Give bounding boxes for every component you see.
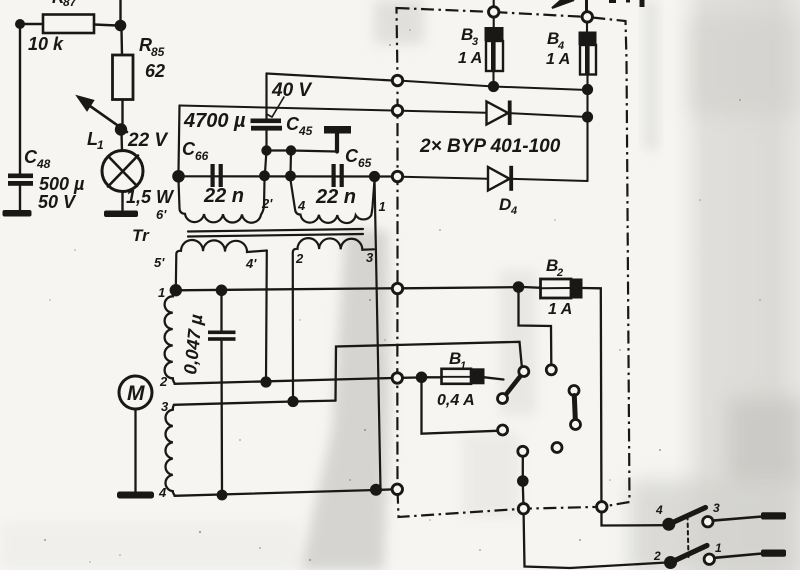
capacitor C65 22n bbox=[332, 164, 336, 187]
wire: terminal to B2 bbox=[402, 287, 515, 288]
svg-text:22 n: 22 n bbox=[203, 185, 244, 207]
winding 1-2 (left vertical) bbox=[165, 290, 176, 383]
terminal primary line bbox=[392, 171, 402, 181]
40V callout arrow bbox=[267, 97, 285, 117]
svg-text:3: 3 bbox=[472, 36, 478, 48]
svg-text:M: M bbox=[127, 382, 145, 405]
wire: 4' down to pin2 line bbox=[265, 251, 268, 382]
wire: pin 4 line bbox=[175, 489, 393, 495]
capacitor C45 4700u bbox=[251, 119, 282, 124]
svg-text:4: 4 bbox=[510, 205, 517, 217]
wire: stub dot to winding line bbox=[265, 153, 266, 173]
terminals (open circles) on boundary bbox=[392, 7, 607, 514]
switch 4-3 (bottom right) bbox=[662, 518, 675, 531]
svg-text:4': 4' bbox=[245, 256, 257, 271]
svg-text:1: 1 bbox=[460, 360, 466, 372]
svg-text:45: 45 bbox=[298, 124, 313, 138]
svg-text:4: 4 bbox=[297, 198, 306, 213]
wire: C45 top line to boundary terminal bbox=[267, 74, 393, 81]
wire: junction up to edge bbox=[119, 0, 121, 21]
svg-text:4: 4 bbox=[158, 485, 167, 500]
winding 6'-2' (primary left) bbox=[179, 180, 265, 223]
wire: pin 2 line bbox=[175, 378, 393, 384]
svg-text:22 n: 22 n bbox=[315, 186, 356, 208]
svg-text:10 k: 10 k bbox=[28, 34, 64, 54]
terminal 40V line bbox=[392, 75, 402, 85]
wire: terminal to B1 bbox=[402, 376, 418, 379]
svg-text:3: 3 bbox=[161, 399, 169, 414]
svg-text:C: C bbox=[345, 146, 359, 166]
switch contact (pole) bbox=[498, 394, 508, 404]
fuse B3 1A bbox=[493, 17, 495, 28]
svg-text:1: 1 bbox=[379, 199, 386, 214]
terminal pin1 line bbox=[392, 283, 402, 293]
ground (C48) bbox=[3, 210, 32, 217]
svg-text:65: 65 bbox=[358, 156, 372, 170]
wire: diode 1 line bbox=[402, 111, 486, 113]
resistor R85 62 bbox=[113, 55, 134, 100]
svg-text:2: 2 bbox=[159, 374, 168, 389]
junction dot 1 top bbox=[369, 171, 380, 182]
svg-text:40 V: 40 V bbox=[271, 80, 312, 101]
diode D4 (lower BYP 401-100) bbox=[488, 167, 510, 191]
arrow pointer at lamp bbox=[90, 106, 127, 132]
terminal pin4 line bbox=[392, 484, 402, 494]
svg-text:1,5 W: 1,5 W bbox=[126, 187, 175, 207]
wire: C45 top vertical bbox=[265, 74, 267, 120]
svg-text:C: C bbox=[182, 139, 196, 159]
junction dot bbox=[286, 145, 296, 155]
wire: diode D4 line bbox=[402, 177, 488, 179]
junction dot B2 left bbox=[513, 281, 525, 293]
wire: lamp bottom to ground bbox=[121, 192, 123, 213]
svg-text:48: 48 bbox=[36, 157, 51, 171]
svg-text:1 A: 1 A bbox=[546, 51, 570, 68]
junction dot C45 bottom bbox=[261, 145, 271, 155]
wire: top-left node to R87 bbox=[20, 23, 43, 25]
svg-text:1: 1 bbox=[715, 541, 722, 555]
text fragments cut at top edge bbox=[609, 0, 616, 3]
fuse B1 0.4A bbox=[426, 376, 442, 378]
wire: long vertical pin1-top to pin4 line bbox=[375, 177, 381, 489]
wire: contact down to pin4 node bbox=[522, 456, 524, 477]
winding 4-1 (primary right) bbox=[291, 180, 375, 223]
terminal pin2 line bbox=[392, 373, 402, 383]
wire: node down to boundary terminal bbox=[522, 484, 525, 504]
wire: B1 right to switch bbox=[485, 377, 504, 379]
wire: 40V node line from C66 box corner to boundary terminal bbox=[180, 106, 393, 111]
wire: pin3 route up and right to switch bbox=[336, 342, 522, 401]
junction dot B4 bottom bbox=[582, 84, 593, 95]
wire: C45 bottom to node bbox=[265, 131, 267, 150]
diode D3 (upper BYP 401-100) bbox=[487, 102, 509, 125]
terminal B4 top bbox=[582, 12, 592, 22]
junction dot 2' top bbox=[259, 170, 270, 181]
junction dot pin4/long vertical bbox=[370, 484, 382, 496]
svg-text:66: 66 bbox=[195, 149, 209, 163]
switch arm B1 bbox=[506, 375, 522, 395]
wire: B4 terminal stub bbox=[585, 0, 588, 12]
transformer core bbox=[188, 229, 363, 232]
wire: B2 left branch down to contact bbox=[519, 290, 552, 364]
winding 2-3 (secondary right) wire down from 4' handled separately bbox=[293, 238, 374, 287]
junction dot diode line bbox=[582, 111, 593, 122]
fuse B2 1A bbox=[523, 286, 541, 289]
switch contact (throw, to pin3 route) bbox=[519, 367, 529, 377]
wire: pin 3 line bbox=[174, 401, 336, 405]
arrow at top bbox=[552, 0, 574, 8]
switch contact isolated bbox=[552, 443, 562, 453]
svg-text:2: 2 bbox=[653, 549, 661, 563]
wire: junction to lamp top bbox=[120, 133, 123, 151]
wire: corner down to C66 top-left dot bbox=[179, 106, 180, 172]
junction dot above lamp L1 bbox=[115, 123, 127, 135]
wire: B4 vertical to D4 corner bbox=[586, 92, 588, 181]
fuse B4 1A bbox=[586, 22, 588, 32]
wire: node to second dot bbox=[267, 149, 292, 151]
wire: node to shield stem bbox=[291, 151, 337, 152]
svg-text:C: C bbox=[24, 147, 38, 167]
svg-text:6': 6' bbox=[156, 207, 167, 222]
switch contact upper of column bbox=[518, 446, 528, 456]
winding 3-4 (left vertical lower) bbox=[166, 405, 175, 496]
svg-text:4: 4 bbox=[655, 503, 663, 517]
switch contact (from B2) bbox=[546, 365, 556, 375]
junction dot pin1/5' bbox=[170, 284, 182, 296]
wire: junction down to R85 bbox=[120, 30, 123, 55]
svg-text:5': 5' bbox=[154, 255, 165, 270]
junction dot pin3/2 bbox=[287, 396, 298, 407]
capacitor C48 500u 50V bbox=[8, 174, 33, 179]
svg-text:87: 87 bbox=[63, 0, 78, 9]
wire: left column down to C48 bbox=[19, 28, 21, 174]
terminal B3 top bbox=[489, 7, 499, 17]
svg-text:50 V: 50 V bbox=[38, 192, 77, 212]
junction dot B1 left bbox=[416, 372, 428, 384]
svg-text:4700 µ: 4700 µ bbox=[183, 110, 246, 132]
wire: B3 terminal stub bbox=[493, 0, 495, 7]
junction dot B3 bottom bbox=[488, 81, 499, 92]
motor M bbox=[119, 376, 152, 409]
capacitor 0.047u branch bbox=[220, 290, 222, 331]
junction dot pin4/cap bbox=[217, 490, 228, 501]
junction dot pin1/cap bbox=[216, 285, 228, 297]
junction dot C66 top-left bbox=[172, 170, 185, 183]
resistor R87 10k bbox=[43, 15, 94, 34]
svg-text:62: 62 bbox=[145, 61, 165, 81]
wire: primary top line bbox=[179, 175, 393, 177]
chassis boundary (dash-dot) bbox=[397, 8, 630, 517]
junction dot 4 top bbox=[285, 171, 296, 182]
junction dot at R85 top bbox=[115, 20, 127, 32]
node A (dot) bbox=[15, 19, 25, 29]
wire: terminal to B3/B4 bottoms bbox=[402, 81, 588, 90]
svg-text:2': 2' bbox=[261, 196, 273, 211]
svg-text:2: 2 bbox=[295, 251, 304, 266]
ground (lamp) bbox=[104, 211, 138, 218]
svg-text:1 A: 1 A bbox=[458, 50, 482, 67]
wire: C48 to ground bbox=[19, 186, 21, 211]
wire: R87 to junction bbox=[94, 25, 117, 26]
wire: 2 down to pin3 line bbox=[292, 287, 294, 399]
terminal bottom right bbox=[597, 502, 607, 512]
capacitor C66 22n bbox=[211, 164, 215, 187]
svg-text:Tr: Tr bbox=[132, 226, 150, 245]
switch bridge (dumbbell) bbox=[569, 386, 579, 396]
svg-text:1: 1 bbox=[158, 285, 165, 300]
shield T symbol bbox=[335, 133, 339, 152]
svg-text:D: D bbox=[499, 195, 511, 214]
winding 5'-4' (secondary left) bbox=[176, 240, 267, 289]
junction dot pin2/4' bbox=[260, 376, 271, 387]
svg-text:C: C bbox=[286, 114, 300, 134]
wire: B1 junction lower branch bbox=[422, 380, 498, 434]
svg-text:500 µ: 500 µ bbox=[39, 174, 85, 194]
svg-text:85: 85 bbox=[151, 45, 165, 59]
svg-text:22 V: 22 V bbox=[127, 130, 168, 151]
junction dot pin4 node right bbox=[517, 475, 529, 487]
wire: R85 to lamp junction bbox=[121, 100, 123, 127]
terminal diode1 line bbox=[392, 105, 402, 115]
wire: pin 1 line bbox=[176, 288, 393, 290]
ground (motor) bbox=[117, 492, 154, 499]
switch contact (lower) bbox=[498, 425, 508, 435]
svg-text:2× BYP 401-100: 2× BYP 401-100 bbox=[419, 136, 561, 157]
terminal bottom left bbox=[518, 504, 528, 514]
svg-text:3: 3 bbox=[713, 501, 720, 515]
svg-text:0,4 A: 0,4 A bbox=[437, 392, 475, 409]
wire: motor to ground bbox=[134, 410, 136, 493]
switch linkage (dashed) bbox=[688, 516, 689, 558]
svg-text:3: 3 bbox=[366, 250, 374, 265]
lamp L1 22V 1.5W bbox=[102, 151, 143, 192]
svg-text:2: 2 bbox=[556, 267, 563, 279]
svg-text:1: 1 bbox=[97, 138, 104, 152]
svg-text:1 A: 1 A bbox=[548, 301, 572, 318]
wire: terminal down to bottom edge then right bbox=[524, 514, 667, 568]
wire: B2 right, corner down bbox=[583, 288, 667, 526]
switch 2-1 (bottom right lower) bbox=[664, 556, 677, 569]
